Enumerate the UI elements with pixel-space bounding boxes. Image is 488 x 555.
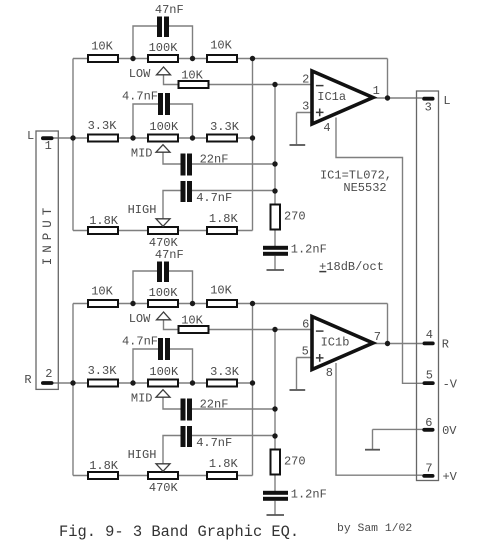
svg-text:R: R (24, 373, 31, 387)
svg-text:7: 7 (425, 461, 432, 475)
svg-text:IC1b: IC1b (321, 336, 350, 350)
svg-text:-V: -V (443, 378, 458, 392)
svg-text:6: 6 (425, 416, 432, 430)
svg-text:3: 3 (302, 100, 309, 114)
svg-text:+V: +V (442, 470, 457, 484)
svg-text:by Sam 1/02: by Sam 1/02 (337, 523, 412, 535)
svg-text:IC1a: IC1a (317, 90, 346, 104)
svg-text:L: L (27, 129, 34, 143)
svg-text:5: 5 (302, 345, 309, 359)
svg-text:4: 4 (323, 121, 330, 135)
svg-text:8: 8 (326, 366, 333, 380)
svg-text:1: 1 (373, 84, 380, 98)
svg-text:6: 6 (302, 318, 309, 332)
svg-text:3: 3 (425, 101, 432, 115)
svg-text:L: L (443, 94, 450, 108)
svg-text:0V: 0V (442, 424, 457, 438)
svg-text:2: 2 (45, 367, 52, 381)
svg-text:5: 5 (426, 369, 433, 383)
svg-text:4: 4 (426, 328, 433, 342)
svg-text:NE5532: NE5532 (343, 181, 386, 195)
svg-text:INPUT: INPUT (41, 203, 55, 266)
svg-text:1: 1 (45, 139, 52, 153)
svg-text:7: 7 (374, 330, 381, 344)
svg-text:R: R (442, 338, 449, 352)
svg-text:Fig. 9- 3 Band Graphic EQ.: Fig. 9- 3 Band Graphic EQ. (59, 523, 299, 541)
svg-text:+18dB/oct: +18dB/oct (319, 260, 384, 274)
svg-text:2: 2 (302, 73, 309, 87)
